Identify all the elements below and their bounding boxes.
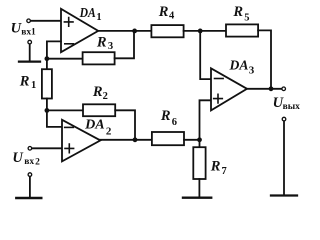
terminal Uvyh top circle [282,87,286,91]
svg-text:7: 7 [222,166,227,177]
svg-text:вх: вх [21,27,31,37]
resistor R5 [226,24,258,36]
svg-text:R: R [19,73,30,89]
ground (under Uvx1) [19,60,40,62]
svg-text:3: 3 [249,64,255,76]
node D junction [198,29,203,34]
op-amp DA3 [211,68,247,110]
wire node B to R2 [47,109,83,111]
terminal Uvx2 ground-side circle [28,173,32,177]
wire R3 to DA1 output node [115,31,134,58]
junction DA2 output / R2 feedback [133,137,138,142]
svg-text:2: 2 [106,125,112,137]
svg-text:4: 4 [169,11,175,22]
svg-text:2: 2 [103,91,108,102]
label DA3 [229,58,255,76]
wire node A to R3 [47,58,83,60]
terminal Uvyh ground-side circle [282,117,286,121]
wire node C to DA3 + input [200,100,212,140]
node C junction [197,137,202,142]
junction DA3 output / R5 feedback [269,86,274,91]
terminal Uvx1 top circle [27,19,31,23]
wire Uvx1 to DA1 + input [31,20,61,22]
resistor R3 [83,52,115,64]
svg-text:3: 3 [108,41,113,52]
resistor R7 [193,147,205,179]
wire R2 to DA2 output node [115,110,135,140]
svg-text:U: U [12,150,24,166]
label R6 [160,108,177,128]
label R1 [19,73,36,91]
label Uvx2 [12,150,40,168]
ground (under Uvyh) [271,194,297,196]
svg-text:R: R [210,158,221,174]
wire node A down to R1 [46,59,48,69]
op-amp DA2 [62,120,100,162]
svg-text:DA: DA [79,6,96,21]
wire DA1 output to R4 [98,30,151,32]
label Uvx1 [11,21,36,38]
svg-text:6: 6 [172,117,177,128]
svg-text:вых: вых [283,102,301,112]
wire R5 to DA3 output node [258,30,271,88]
svg-text:R: R [92,84,103,100]
wire R4 to node D [184,30,226,32]
label Uvyh [273,95,301,112]
resistor R4 [151,25,183,37]
terminal Uvx1 ground-side circle [28,40,32,44]
wire DA2 output to R6 [100,139,152,141]
label R2 [92,84,108,102]
label R3 [96,34,113,52]
svg-text:R: R [96,34,107,50]
label R7 [210,158,227,177]
wire node B to DA2 inverting input [47,110,62,127]
ground (under Uvx2) [16,197,41,199]
wire R1 to node B [46,99,48,111]
wire Uvx2 ground drop [29,177,31,197]
svg-text:DA: DA [84,118,105,133]
svg-text:R: R [160,108,171,124]
junction DA1 output / R3 feedback [132,29,137,34]
wire R6 to node C [184,139,200,141]
wire R7 to ground [198,179,200,197]
svg-text:DA: DA [229,58,249,73]
op-amp DA1 [61,9,98,52]
svg-text:2: 2 [35,157,40,167]
label DA2 [84,118,112,138]
svg-text:R: R [158,4,169,20]
wire Uvx2 to DA2 + input [32,147,62,149]
svg-text:R: R [232,4,243,20]
node B junction [45,108,50,113]
ground (under R7) [183,196,211,198]
wire node C to R7 [199,140,201,147]
svg-text:1: 1 [31,80,36,91]
svg-text:1: 1 [96,12,101,23]
wire node D to DA3 inverting input [200,31,211,79]
wire Uvx1 ground drop [29,44,31,60]
label DA1 [79,6,102,23]
label R5 [232,4,249,23]
wire DA3 output to Uvyh [247,88,282,90]
wire Uvyh ground drop [283,121,285,194]
svg-text:1: 1 [31,27,36,37]
resistor R1 [42,69,52,98]
node A junction [45,56,50,61]
terminal Uvx2 top circle [28,147,32,151]
svg-text:вх: вх [24,157,34,167]
label R4 [158,4,175,22]
resistor R6 [152,132,184,145]
svg-text:5: 5 [244,12,249,23]
wire DA1 inverting input to node A [47,41,61,58]
resistor R2 [83,104,115,116]
